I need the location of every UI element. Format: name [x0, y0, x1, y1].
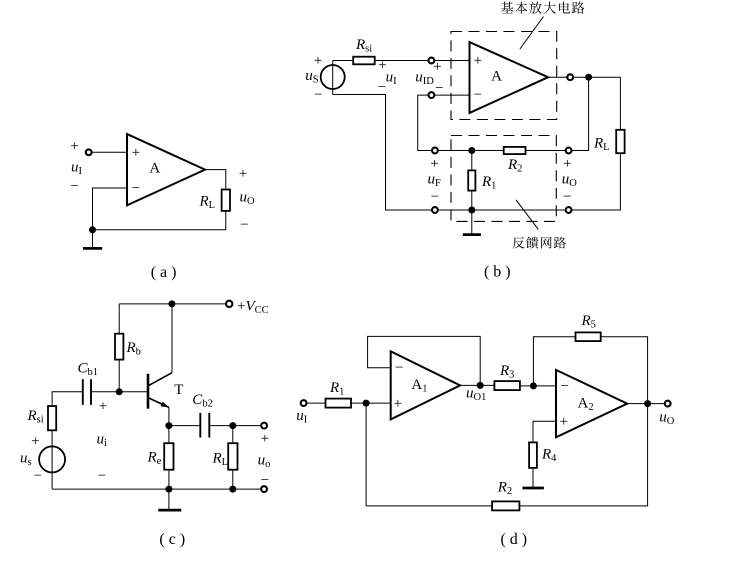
label + u_O - (b)	[562, 156, 578, 205]
ground (a)	[83, 230, 102, 249]
ground (c)	[158, 489, 181, 510]
u_F + terminal (b)	[432, 148, 438, 154]
resistor R_L (c)	[212, 443, 238, 470]
wire source top to R_si (b)	[333, 60, 354, 62]
node dot input (d)	[363, 400, 370, 407]
pointer line to basic amplifier box (b)	[520, 17, 544, 50]
output + terminal (c)	[261, 423, 267, 429]
input terminal (a)	[86, 149, 92, 155]
wire R_e to rail (c)	[168, 470, 170, 489]
svg-text:−: −	[560, 379, 568, 395]
resistor R_1 (b)	[468, 170, 496, 191]
resistor R_2 (d)	[492, 480, 519, 511]
wire emitter node to R_e (c)	[168, 426, 170, 444]
wire input to R_1 (d)	[307, 402, 326, 404]
resistor R_5 (d)	[576, 313, 601, 341]
label u_i (c)	[97, 399, 108, 485]
u_O - terminal (b)	[566, 207, 572, 213]
wire R_b to base node (c)	[118, 360, 120, 392]
resistor R_2 (b)	[504, 147, 526, 175]
svg-text:−: −	[98, 468, 106, 484]
node dot R_L top (c)	[229, 422, 236, 429]
input terminal (d)	[301, 400, 307, 406]
svg-text:+: +	[70, 139, 78, 155]
output node dot (b)	[585, 74, 592, 81]
bottom feedback wire to R_2 (d)	[366, 403, 492, 506]
dashed box basic amplifier (b)	[451, 32, 557, 120]
label + u_o - (c)	[258, 431, 271, 489]
label u_ID (b)	[415, 59, 443, 96]
wire - terminal to feedback port (b)	[418, 95, 432, 150]
svg-text:−: −	[240, 217, 248, 233]
op-amp A (b)	[470, 42, 549, 113]
output terminal (d)	[665, 401, 671, 407]
wire R_L to bottom rail (a)	[93, 211, 226, 230]
op-amp A2 (d)	[556, 370, 627, 437]
wire source bottom to rail (b)	[333, 95, 432, 211]
wire bottom rail inside network (b)	[438, 209, 566, 211]
Vcc terminal (c)	[226, 301, 232, 307]
u_O + terminal (b)	[566, 148, 572, 154]
resistor R_b (c)	[115, 334, 141, 360]
wire op-amp output to R_L (a)	[205, 170, 226, 190]
node dot emitter (c)	[165, 422, 172, 429]
svg-text:−: −	[563, 189, 571, 205]
node dot collector rail (c)	[168, 300, 175, 307]
wire R_2 to output (d)	[519, 404, 647, 506]
svg-text:+: +	[314, 53, 322, 69]
wire emitter to C_b2 (c)	[169, 425, 200, 427]
wire R_1 to node (d)	[351, 402, 391, 404]
source u_S (b)	[305, 53, 345, 103]
svg-text:T: T	[174, 382, 183, 398]
svg-text:( c ): ( c )	[159, 531, 185, 548]
svg-text:A: A	[149, 161, 160, 177]
wire terminal to op-amp + input (b)	[434, 60, 469, 62]
svg-text:−: −	[70, 179, 78, 195]
resistor R_L (a)	[199, 190, 231, 212]
wire R_1 bottom (b)	[471, 191, 473, 210]
svg-text:+: +	[474, 53, 482, 69]
svg-text:−: −	[395, 360, 403, 376]
node dot output (d)	[644, 400, 651, 407]
svg-text:+: +	[394, 396, 402, 412]
wire A2 + input to R_4 (d)	[533, 421, 556, 442]
bottom rail wire (c)	[52, 488, 261, 490]
wire A1 output to R_3 (d)	[460, 384, 494, 386]
node dot R_e bottom (c)	[165, 486, 172, 493]
text label feedback-network 反馈网路 (b)	[512, 237, 566, 249]
output - terminal (c)	[261, 486, 267, 492]
wire terminal to output node (b)	[573, 76, 620, 78]
svg-text:+: +	[433, 59, 441, 75]
transistor T (c)	[148, 373, 183, 409]
svg-text:−: −	[474, 87, 482, 103]
text label basic-amplifier 基本放大电路 (b)	[501, 2, 584, 14]
wire C_b1 to base (c)	[91, 391, 148, 393]
wire inverting input to ground node (a)	[93, 188, 128, 230]
- input terminal (b)	[429, 92, 435, 98]
svg-text:−: −	[34, 468, 42, 484]
wire A2 output (d)	[627, 403, 665, 405]
node junction dot (a)	[89, 226, 96, 233]
node dot base (c)	[116, 388, 123, 395]
capacitor C_b1 (c)	[78, 360, 99, 405]
+ input terminal (b)	[429, 58, 435, 64]
svg-text:−: −	[435, 80, 443, 96]
label + u_F - (b)	[428, 156, 442, 205]
top rail wire (c)	[119, 303, 226, 305]
svg-text:−: −	[261, 473, 269, 489]
label + u_O - (a output)	[239, 166, 255, 233]
source u_s (c)	[20, 430, 65, 489]
node dot A1 output (d)	[477, 382, 484, 389]
svg-text:+: +	[559, 414, 567, 430]
wire rail to R_b (c)	[118, 304, 120, 334]
pointer line to feedback network box (b)	[516, 200, 538, 230]
wire C_b1 left (c)	[52, 392, 83, 406]
wire u_F terminal to R_2 node (b)	[438, 150, 504, 152]
wire R_L to rail (c)	[232, 470, 234, 489]
output terminal (b)	[567, 74, 573, 80]
svg-text:( a ): ( a )	[151, 264, 177, 281]
svg-text:A: A	[491, 69, 502, 85]
wire terminal to op-amp - input (b)	[434, 94, 469, 96]
svg-text:−: −	[431, 189, 439, 205]
wire R_5 to output (d)	[601, 337, 648, 404]
svg-text:( d ): ( d )	[500, 531, 527, 548]
wire collector up (c)	[171, 304, 173, 373]
ground (b)	[463, 210, 481, 235]
wire C_b2 to output (c)	[209, 425, 261, 427]
wire output node down to R_L (b)	[619, 77, 621, 130]
svg-text:+: +	[239, 166, 247, 182]
dashed box feedback network (b)	[451, 136, 556, 222]
op-amp A (a)	[127, 134, 205, 205]
node dot R_1 top (b)	[468, 147, 475, 154]
resistor R_1 (d)	[326, 380, 352, 408]
wire R_si to + terminal (b)	[375, 60, 429, 62]
capacitor C_b2 (c)	[192, 392, 213, 438]
wire R_1 top (b)	[471, 151, 473, 171]
resistor R_L (b)	[593, 130, 625, 153]
svg-text:+: +	[261, 431, 269, 447]
svg-text:( b ): ( b )	[484, 264, 511, 281]
wire R_L bottom to rail (b)	[572, 153, 621, 210]
wire R_3 to A2 input node (d)	[520, 385, 556, 387]
node dot R_L bottom (c)	[229, 486, 236, 493]
node dot A2 inverting input (d)	[530, 382, 537, 389]
svg-text:−: −	[132, 181, 140, 197]
svg-text:+: +	[31, 434, 39, 450]
label + u_I - (b)	[378, 57, 398, 95]
op-amp A1 (d)	[391, 351, 460, 419]
svg-text:+: +	[132, 145, 140, 161]
node dot R_1 bottom (b)	[468, 207, 475, 214]
wire op-amp output to terminal (b)	[548, 76, 567, 78]
ground (d)	[523, 468, 544, 488]
resistor R_3 (d)	[494, 363, 520, 390]
svg-text:−: −	[314, 87, 322, 103]
wire R_2 to u_O terminal (b)	[526, 150, 566, 152]
resistor R_4 (d)	[529, 442, 557, 468]
svg-text:+: +	[430, 156, 438, 172]
u_F - terminal (b)	[432, 207, 438, 213]
label + u_I - (a input)	[70, 139, 82, 195]
resistor R_si (c)	[27, 406, 57, 430]
wire output node to u_O port (b)	[572, 77, 589, 150]
feedback wire A1 (d)	[368, 336, 481, 385]
svg-text:+: +	[563, 156, 571, 172]
svg-text:−: −	[378, 80, 386, 96]
svg-text:+: +	[99, 399, 107, 415]
resistor R_si (b)	[353, 37, 375, 65]
wire R_L top (c)	[232, 426, 234, 444]
wire node up to R_5 (d)	[533, 337, 575, 386]
resistor R_e (c)	[147, 443, 174, 470]
wire emitter down (c)	[168, 407, 170, 425]
wire input to op-amp (a)	[92, 151, 127, 153]
